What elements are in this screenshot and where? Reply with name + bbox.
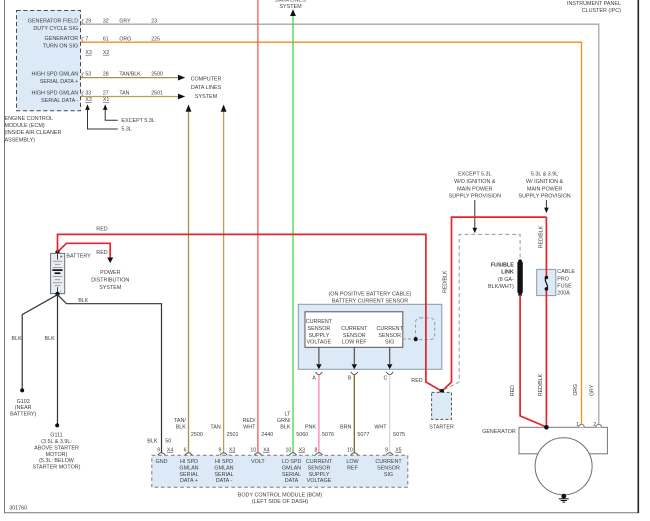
page border right: [637, 0, 639, 513]
svg-text:X2: X2: [103, 50, 109, 56]
svg-text:5075: 5075: [393, 432, 405, 438]
starter box: [432, 392, 452, 419]
svg-text:DATA LINES: DATA LINES: [275, 0, 306, 4]
svg-text:DUTY CYCLE SIG: DUTY CYCLE SIG: [33, 26, 78, 32]
svg-text:GENERATOR: GENERATOR: [482, 429, 516, 435]
BCM terminal 5060: [289, 453, 296, 455]
svg-text:DATA -: DATA -: [216, 478, 233, 484]
BCM terminal 5075: [386, 453, 393, 455]
BCM pin 9 X3: [219, 447, 236, 453]
BCM label GND: [156, 459, 168, 465]
svg-text:LOW: LOW: [346, 459, 359, 465]
svg-text:GRY: GRY: [590, 384, 596, 396]
wire ORG 225 horizontal+vertical to generator: [81, 42, 582, 424]
svg-text:10: 10: [347, 447, 353, 453]
sensor clamp dashed outline: [416, 318, 435, 340]
drawing number 301760: [9, 505, 27, 511]
connector A: [312, 372, 322, 382]
sensor internal wire B with arrow: [352, 347, 357, 369]
svg-text:SUPPLY: SUPPLY: [309, 472, 330, 478]
svg-text:X1: X1: [103, 97, 109, 103]
svg-text:SERIAL DATA -: SERIAL DATA -: [41, 98, 78, 104]
svg-text:BATTERY): BATTERY): [10, 412, 36, 418]
svg-text:SYSTEM: SYSTEM: [279, 4, 302, 10]
BCM pin 8: [315, 447, 318, 453]
svg-text:G111: G111: [50, 433, 62, 439]
node sensor clamp on positive cable: [414, 337, 418, 341]
svg-text:27: 27: [103, 91, 109, 97]
svg-text:HI SPD: HI SPD: [180, 459, 198, 465]
pointer EXCEPT 5.3L to X1: [103, 104, 155, 124]
svg-text:SENSOR: SENSOR: [378, 333, 401, 339]
svg-text:MOTOR): MOTOR): [46, 452, 68, 458]
svg-text:8: 8: [315, 447, 318, 453]
svg-text:LT: LT: [285, 411, 292, 417]
pin labels row1 29 32 GRY 23: [85, 18, 157, 24]
svg-text:BATTERY: BATTERY: [66, 253, 91, 259]
svg-text:BLK: BLK: [45, 336, 56, 342]
svg-text:A: A: [312, 376, 316, 382]
svg-text:RED/BLK: RED/BLK: [538, 225, 544, 248]
ECM terminal hook row2: [82, 37, 84, 42]
connector C: [384, 372, 394, 382]
svg-text:28: 28: [103, 72, 109, 78]
label BLK (G102 branch): [12, 336, 23, 342]
label COMPUTER DATA LINES SYSTEM: [191, 77, 222, 100]
label INSTRUMENT PANEL CLUSTER (IPC): [567, 1, 621, 14]
BCM label HI SPD GMLAN SERIAL DATA -: [214, 459, 233, 484]
svg-text:+: +: [60, 254, 63, 260]
svg-text:ABOVE STARTER: ABOVE STARTER: [34, 445, 79, 451]
BCM terminal 2501: [220, 453, 227, 455]
svg-text:ASSEMBLY): ASSEMBLY): [5, 137, 36, 143]
svg-text:TURN ON SIG: TURN ON SIG: [43, 44, 78, 50]
svg-text:HI SPD: HI SPD: [215, 459, 233, 465]
svg-text:(8 GA-: (8 GA-: [498, 277, 514, 283]
svg-text:5076: 5076: [322, 432, 334, 438]
generator terminal 1: [576, 422, 584, 428]
svg-text:DATA LINES: DATA LINES: [191, 85, 222, 91]
svg-text:BLK: BLK: [280, 425, 291, 431]
svg-text:GMLAN: GMLAN: [282, 465, 301, 471]
label DATA LINES SYSTEM (top cropped): [275, 0, 306, 10]
BCM terminal GND: [158, 453, 165, 455]
battery current sensor title: [329, 291, 412, 304]
battery current sensor inner box: [305, 312, 403, 348]
label RED/BLK (left of feed): [443, 270, 449, 293]
svg-text:CURRENT: CURRENT: [341, 326, 368, 332]
svg-text:EXCEPT 5.3L: EXCEPT 5.3L: [458, 172, 491, 178]
svg-text:BLK: BLK: [12, 336, 23, 342]
svg-text:(ON POSITIVE BATTERY CABLE): (ON POSITIVE BATTERY CABLE): [329, 291, 412, 297]
BCM label LO SPD GMLAN SERIAL DATA: [282, 459, 302, 484]
svg-text:X4: X4: [263, 447, 269, 453]
wire label RED/WHT 2440: [243, 418, 274, 438]
svg-text:CABLE: CABLE: [557, 269, 575, 275]
svg-text:HIGH SPD GMLAN: HIGH SPD GMLAN: [31, 91, 78, 97]
svg-text:GRN/: GRN/: [277, 418, 291, 424]
connector B: [348, 372, 358, 382]
svg-text:50: 50: [165, 439, 171, 445]
svg-text:(LEFT SIDE OF DASH): (LEFT SIDE OF DASH): [252, 499, 308, 505]
svg-text:SYSTEM: SYSTEM: [195, 94, 218, 100]
svg-text:7: 7: [85, 36, 88, 42]
BCM label CURRENT SENSOR SUPPLY VOLTAGE: [306, 459, 333, 484]
svg-text:SUPPLY PROVISION: SUPPLY PROVISION: [449, 194, 501, 200]
svg-text:CURRENT: CURRENT: [306, 319, 333, 325]
ground G102: [10, 388, 36, 417]
wire BLK battery to G111: [57, 294, 59, 425]
wire RED main feed loop: [442, 217, 547, 391]
label CURRENT SENSOR LOW REF: [341, 326, 368, 346]
svg-text:RED: RED: [96, 227, 107, 233]
node battery positive terminal: [55, 250, 59, 254]
svg-text:X5: X5: [395, 447, 401, 453]
BCM pin 9 X5: [385, 447, 402, 453]
svg-text:BODY CONTROL MODULE (BCM): BODY CONTROL MODULE (BCM): [238, 493, 323, 499]
node starter feed junction: [440, 389, 445, 394]
svg-text:BLK: BLK: [147, 439, 158, 445]
ECM pin label HIGH SPD GMLAN SERIAL DATA +: [31, 72, 78, 85]
pin labels row3 53 28 TAN/BLK 2500: [85, 72, 163, 78]
svg-text:TAN/: TAN/: [174, 418, 186, 424]
sensor internal wire A with arrow: [316, 347, 321, 369]
label RED (at starter junction): [411, 378, 422, 384]
svg-text:EXCEPT 5.3L: EXCEPT 5.3L: [121, 118, 154, 124]
cable pro fuse box: [537, 269, 556, 295]
wire label PNK 5076: [305, 425, 334, 439]
svg-text:RED: RED: [411, 378, 422, 384]
svg-text:X3: X3: [85, 97, 91, 103]
svg-text:BATTERY CURRENT SENSOR: BATTERY CURRENT SENSOR: [332, 299, 408, 305]
svg-text:LOW REF: LOW REF: [342, 340, 367, 346]
svg-text:10: 10: [286, 447, 292, 453]
svg-text:BRN: BRN: [340, 425, 351, 431]
ECM terminal hook row1: [82, 19, 84, 24]
svg-text:33: 33: [85, 91, 91, 97]
svg-text:1: 1: [576, 422, 579, 428]
ECM module box: [17, 11, 81, 111]
svg-text:TAN/BLK: TAN/BLK: [119, 72, 141, 78]
wire label BLK 50: [147, 439, 171, 445]
wire TAN 2501 to computer data lines: [81, 96, 178, 98]
wire WHT 5075: [389, 375, 391, 453]
svg-text:C: C: [384, 376, 388, 382]
BCM label HI SPD GMLAN SERIAL DATA +: [179, 459, 198, 484]
svg-text:GND: GND: [156, 459, 168, 465]
svg-text:X4: X4: [167, 447, 173, 453]
svg-text:GENERATOR: GENERATOR: [45, 36, 79, 42]
generator box: [519, 427, 607, 454]
svg-text:2501: 2501: [227, 432, 239, 438]
svg-text:ENGINE CONTROL: ENGINE CONTROL: [5, 116, 54, 122]
svg-text:9: 9: [385, 447, 388, 453]
svg-text:REF: REF: [347, 465, 358, 471]
svg-text:X3: X3: [299, 447, 305, 453]
svg-text:RED/: RED/: [243, 418, 256, 424]
svg-text:LO SPD: LO SPD: [282, 459, 302, 465]
svg-text:X3: X3: [85, 50, 91, 56]
svg-text:(3.5L & 3.9L:: (3.5L & 3.9L:: [41, 439, 72, 445]
connector labels X3 X2 under row2: [85, 50, 109, 56]
wire RED/WHT 2440 vertical: [257, 0, 259, 452]
svg-text:STARTER MOTOR): STARTER MOTOR): [33, 465, 81, 471]
wire TAN vertical from BCM with up arrow: [221, 105, 227, 453]
svg-text:ORG: ORG: [119, 36, 131, 42]
svg-text:SENSOR: SENSOR: [308, 465, 331, 471]
svg-text:RED: RED: [96, 250, 107, 256]
generator circle: [535, 438, 592, 495]
svg-text:B: B: [348, 376, 352, 382]
connector labels X3 X1 under row4: [85, 97, 109, 103]
svg-text:(NEAR: (NEAR: [15, 405, 32, 411]
svg-text:5060: 5060: [296, 432, 308, 438]
svg-text:BLK: BLK: [78, 298, 89, 304]
svg-text:SENSOR: SENSOR: [377, 465, 400, 471]
svg-text:INSTRUMENT PANEL: INSTRUMENT PANEL: [567, 1, 621, 7]
pin labels row4 33 27 TAN 2501: [85, 91, 163, 97]
BCM pin 9 X4 (GND): [157, 447, 173, 453]
wire BLK 50 battery to BCM GND: [58, 295, 162, 453]
label CURRENT SENSOR SIG: [377, 326, 404, 346]
dashed provision outline: [444, 234, 520, 389]
label RED/BLK (above fuse): [538, 225, 544, 248]
svg-text:BLK/WHT): BLK/WHT): [488, 284, 514, 290]
wire RED battery positive cable to sensor and starter: [58, 234, 442, 391]
svg-text:WHT: WHT: [374, 425, 387, 431]
BCM terminal 5076: [315, 453, 322, 455]
svg-text:GMLAN: GMLAN: [179, 465, 198, 471]
svg-text:9: 9: [219, 447, 222, 453]
svg-text:5077: 5077: [357, 432, 369, 438]
svg-text:2: 2: [593, 422, 596, 428]
svg-text:MAIN POWER: MAIN POWER: [527, 186, 562, 192]
BCM terminal 5077: [351, 453, 358, 455]
page border left: [4, 0, 6, 513]
wire RED to power distribution with arrow: [58, 243, 114, 263]
svg-text:CURRENT: CURRENT: [377, 326, 404, 332]
svg-text:DATA: DATA: [285, 478, 299, 484]
label CABLE PRO FUSE 200A: [557, 269, 575, 297]
label RED/BLK (fuse output): [538, 373, 544, 396]
ECM terminal hook row3: [82, 72, 84, 77]
svg-text:HIGH SPD GMLAN: HIGH SPD GMLAN: [31, 72, 78, 78]
arrow to computer data lines row4: [178, 94, 185, 100]
svg-text:6: 6: [184, 447, 187, 453]
wire BRN 5077: [353, 375, 355, 453]
generator terminal 2: [593, 422, 601, 428]
BCM terminal 2500: [185, 453, 192, 455]
label RED (fusible link output): [510, 385, 516, 396]
wire TAN/BLK vertical from BCM with up arrow: [186, 105, 192, 453]
svg-text:SERIAL: SERIAL: [179, 472, 198, 478]
svg-text:SERIAL: SERIAL: [214, 472, 233, 478]
wire label LT GRN/BLK 5060: [277, 411, 308, 438]
wire label TAN 2501: [210, 425, 238, 439]
svg-text:32: 32: [103, 18, 109, 24]
sensor internal wire C with arrow: [387, 347, 392, 369]
BCM label LOW REF: [346, 459, 359, 471]
svg-text:DATA +: DATA +: [180, 478, 198, 484]
svg-text:(5.3L: BELOW: (5.3L: BELOW: [39, 458, 75, 464]
ECM terminal hook row4: [82, 91, 84, 96]
ECM pin label HIGH SPD GMLAN SERIAL DATA -: [31, 91, 78, 104]
svg-text:FUSIBLE: FUSIBLE: [491, 262, 514, 268]
wire LT GRN/BLK 5060 vertical with up arrow: [290, 9, 296, 452]
battery: [51, 253, 65, 294]
svg-text:SYSTEM: SYSTEM: [99, 285, 122, 291]
label BLK (G111 branch): [45, 336, 56, 342]
svg-text:29: 29: [85, 18, 91, 24]
svg-text:-: -: [60, 288, 62, 294]
wire PNK 5076: [318, 375, 320, 453]
svg-text:53: 53: [85, 72, 91, 78]
svg-text:SERIAL: SERIAL: [282, 472, 301, 478]
wire TAN/BLK 2500 to computer data lines: [81, 77, 178, 79]
svg-text:9: 9: [157, 447, 160, 453]
label CURRENT SENSOR SUPPLY VOLTAGE: [306, 319, 333, 345]
svg-text:SENSOR: SENSOR: [343, 333, 366, 339]
BCM module box: [152, 455, 408, 487]
pin labels row2 7 61 ORG 225: [85, 36, 160, 42]
svg-text:2500: 2500: [151, 72, 163, 78]
svg-text:STARTER: STARTER: [429, 425, 454, 431]
BCM pin 10 X3: [286, 447, 306, 453]
svg-text:VOLTAGE: VOLTAGE: [307, 340, 332, 346]
label FUSIBLE LINK (8 GA- BLK/WHT): [488, 262, 514, 290]
svg-text:W/O IGNITION &: W/O IGNITION &: [454, 179, 496, 185]
svg-text:SENSOR: SENSOR: [308, 326, 331, 332]
arrow to computer data lines row3: [178, 75, 185, 81]
sensor clamp dashed lead: [403, 338, 413, 340]
cable pro fuse element: [545, 276, 549, 291]
ground G111: [33, 423, 81, 470]
pointer arrow to red/blk feed: [544, 200, 549, 213]
svg-text:200A: 200A: [557, 291, 570, 297]
svg-text:W/ IGNITION &: W/ IGNITION &: [526, 179, 564, 185]
svg-text:X3: X3: [229, 447, 235, 453]
svg-text:5.3L & 3.9L: 5.3L & 3.9L: [531, 172, 558, 178]
BCM pin 10 X4: [250, 447, 269, 453]
BCM pin 6: [184, 447, 187, 453]
svg-text:TAN: TAN: [119, 91, 129, 97]
wire label BRN 5077: [340, 425, 369, 439]
svg-text:COMPUTER: COMPUTER: [191, 77, 222, 83]
svg-text:23: 23: [151, 18, 157, 24]
svg-text:PNK: PNK: [305, 425, 316, 431]
svg-text:2440: 2440: [261, 432, 273, 438]
svg-text:RED: RED: [510, 385, 516, 396]
BCM caption: [238, 493, 323, 506]
pointer 5.3L to X3: [85, 104, 132, 132]
label STARTER: [429, 425, 454, 431]
svg-text:301760: 301760: [9, 505, 27, 511]
svg-text:10: 10: [250, 447, 256, 453]
svg-text:RED/BLK: RED/BLK: [443, 270, 449, 293]
label BLK (BCM ground wire): [78, 298, 89, 304]
svg-text:CLUSTER (IPC): CLUSTER (IPC): [582, 8, 621, 14]
label RED (battery top cable): [96, 227, 107, 233]
svg-text:CURRENT: CURRENT: [306, 459, 333, 465]
svg-text:BLK: BLK: [176, 425, 187, 431]
svg-text:SERIAL DATA +: SERIAL DATA +: [40, 79, 78, 85]
svg-text:LINK: LINK: [501, 270, 514, 276]
svg-text:2501: 2501: [151, 91, 163, 97]
svg-text:5.3L: 5.3L: [121, 127, 131, 133]
label GENERATOR: [482, 429, 516, 435]
svg-text:CURRENT: CURRENT: [375, 459, 402, 465]
svg-text:225: 225: [151, 36, 160, 42]
svg-text:GENERATOR FIELD: GENERATOR FIELD: [28, 19, 79, 25]
label EXCEPT 5.3L W/O IGNITION provision: [449, 172, 501, 200]
svg-text:SIG: SIG: [385, 340, 394, 346]
svg-text:VOLT: VOLT: [251, 459, 265, 465]
fusible link: [517, 259, 522, 296]
generator case ground: [559, 494, 569, 502]
svg-text:TAN: TAN: [210, 425, 220, 431]
svg-text:MODULE (ECM): MODULE (ECM): [5, 123, 45, 129]
wire GRY 23 horizontal+vertical to generator: [81, 24, 599, 424]
label RED (power distribution branch): [96, 250, 107, 256]
svg-text:GMLAN: GMLAN: [214, 465, 233, 471]
svg-text:G102: G102: [17, 399, 30, 405]
svg-text:2500: 2500: [191, 432, 203, 438]
svg-text:61: 61: [103, 36, 109, 42]
svg-text:SUPPLY PROVISION: SUPPLY PROVISION: [518, 194, 570, 200]
svg-text:VOLTAGE: VOLTAGE: [307, 478, 332, 484]
ECM caption ENGINE CONTROL MODULE: [5, 116, 62, 143]
label BATTERY: [66, 253, 91, 259]
svg-text:SUPPLY: SUPPLY: [308, 333, 329, 339]
ECM pin label GENERATOR FIELD DUTY CYCLE SIG: [28, 19, 79, 32]
ECM pin label GENERATOR TURN ON SIG: [43, 36, 78, 49]
wire RED from fusible link to generator: [520, 295, 546, 427]
svg-text:PRO: PRO: [557, 276, 569, 282]
BCM terminal 2440: [254, 453, 261, 455]
svg-text:GRY: GRY: [119, 18, 131, 24]
wire label WHT 5075: [374, 425, 405, 439]
BCM label CURRENT SENSOR SIG: [375, 459, 402, 478]
label GRY (vertical): [590, 384, 596, 396]
svg-text:WHT: WHT: [243, 425, 256, 431]
page border bottom: [4, 512, 639, 514]
svg-text:ORG: ORG: [573, 384, 579, 396]
node generator battery terminal: [544, 425, 549, 430]
svg-text:RED/BLK: RED/BLK: [538, 373, 544, 396]
BCM label VOLT: [251, 459, 265, 465]
label POWER DISTRIBUTION SYSTEM: [91, 270, 129, 291]
label 5.3L & 3.9L W/ IGNITION provision: [518, 172, 570, 200]
wire BLK battery to G102: [22, 295, 57, 390]
label ORG (vertical): [573, 384, 579, 396]
svg-text:MAIN POWER: MAIN POWER: [457, 186, 492, 192]
svg-text:(INSIDE AIR CLEANER: (INSIDE AIR CLEANER: [5, 130, 62, 136]
node battery negative terminal: [55, 292, 59, 296]
BCM pin 10: [347, 447, 353, 453]
svg-text:DISTRIBUTION: DISTRIBUTION: [91, 278, 129, 284]
wire RED/BLK down through cable pro fuse: [545, 217, 547, 427]
pointer arrow to dashed provision box: [473, 200, 478, 233]
svg-text:FUSE: FUSE: [557, 284, 572, 290]
battery current sensor box: [298, 304, 442, 369]
svg-text:POWER: POWER: [100, 270, 120, 276]
svg-text:SIG: SIG: [384, 472, 393, 478]
wire label TAN/BLK 2500: [174, 418, 203, 438]
